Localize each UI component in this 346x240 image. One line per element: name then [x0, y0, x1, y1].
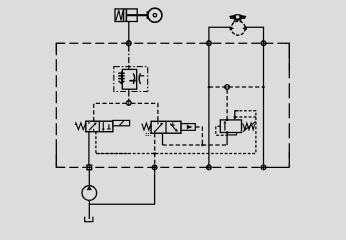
V1 left square flow arrow: [89, 121, 97, 132]
junction node J5 (pump tee): [87, 165, 92, 170]
hydraulic motor M1 circle (dashed): [231, 21, 245, 35]
wire RV1 drain down (solid): [226, 135, 228, 145]
junction node J1: [126, 41, 131, 46]
V1 right square symbols: [102, 122, 111, 131]
relief valve RV1 body: [220, 120, 241, 133]
motor inlet arrows: [230, 26, 247, 30]
cylinder roller: [148, 8, 162, 22]
junction node J2 on sense line: [225, 85, 230, 90]
wire motor left leg: [209, 27, 231, 41]
pilot wire V1 drain (dashed): [96, 132, 128, 154]
junction node J6: [152, 165, 157, 170]
pilot wire from V2 actuator (dashed): [195, 127, 202, 145]
junction dot drain cross: [154, 152, 156, 154]
outer dashed enclosure top edge: [56, 42, 289, 44]
RV1 spring with adjustment arrow: [243, 121, 256, 131]
V1 return spring: [75, 123, 86, 130]
wire V2 right port down (solid): [162, 133, 164, 145]
V1 pilot actuator box: [113, 120, 130, 125]
RV1 pilot stub (solid): [235, 111, 239, 120]
wire right motor line down: [263, 46, 265, 165]
junction node J7: [207, 165, 212, 170]
junction node A: [127, 101, 132, 106]
wire cylinder to junction: [128, 22, 130, 41]
RV1 port dots: [226, 116, 236, 134]
outer dashed enclosure right edge: [288, 43, 290, 167]
directional valve V1 body: [86, 121, 113, 132]
tank T1: [85, 217, 93, 222]
outer dashed enclosure bottom edge: [56, 43, 289, 167]
RV1 bottom port chamber: [227, 133, 236, 135]
pilot wire V2 left port down (dashed): [154, 133, 156, 165]
cylinder C1 body: [115, 9, 147, 22]
wire left motor line down: [208, 46, 210, 165]
pressure line sense (dashed) y87: [208, 86, 265, 88]
motor shaft symbol: [229, 15, 246, 23]
V2 return spring: [142, 123, 151, 135]
pilot wire y145 to relief drain (dashed): [163, 144, 227, 146]
junction node J8: [261, 165, 266, 170]
pump P1: [82, 186, 97, 201]
directional valve V2 body: [151, 121, 181, 133]
pilot wire FC1 to node A (dash-dot): [128, 92, 130, 101]
flow control valve FC1 dash-dot enclosure: [114, 67, 148, 92]
RV1 left drain loop (dashed): [216, 126, 227, 135]
junction dot at pilot/drain: [201, 144, 203, 146]
junction node J3: [207, 41, 212, 46]
wire pump to tank: [88, 200, 90, 219]
flow control valve FC1 body: [122, 67, 136, 92]
V2 pilot actuator box with triangle: [181, 124, 195, 131]
FC1 throttle symbol: [129, 73, 144, 84]
drain fine-dashed line to relief spring: [96, 153, 256, 155]
pilot wire J2 down to relief valve (dashed): [226, 89, 228, 120]
outer dashed enclosure left edge: [55, 43, 57, 167]
pilot wire junction to flow control (dash-dot): [128, 46, 130, 67]
wire V1 to pump line (solid): [88, 132, 90, 165]
RV1 pilot box (dashed): [235, 111, 256, 154]
V2 right square symbols: [170, 122, 178, 131]
return wire V2 to tank line: [89, 170, 154, 204]
wire motor right leg: [245, 27, 263, 41]
pilot wire node A to valve tops (dashed Y): [94, 103, 158, 121]
FC1 check-valve spring symbol: [118, 72, 125, 84]
junction node J4: [261, 41, 266, 46]
pump P1 supply wire: [88, 170, 90, 186]
V2 left square flow arrow: [155, 121, 164, 133]
